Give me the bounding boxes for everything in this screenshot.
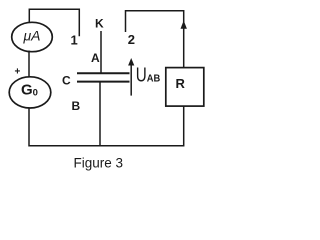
svg-text:A: A — [91, 51, 100, 65]
svg-text:B: B — [72, 99, 81, 113]
svg-text:1: 1 — [71, 33, 78, 48]
svg-text:2: 2 — [128, 32, 135, 47]
svg-text:Figure 3: Figure 3 — [74, 155, 124, 170]
svg-text:μA: μA — [22, 28, 40, 44]
svg-text:UAB: UAB — [136, 65, 161, 87]
svg-text:R: R — [176, 76, 186, 91]
svg-text:K: K — [95, 17, 104, 31]
svg-text:C: C — [62, 74, 71, 88]
svg-text:+: + — [15, 67, 21, 78]
